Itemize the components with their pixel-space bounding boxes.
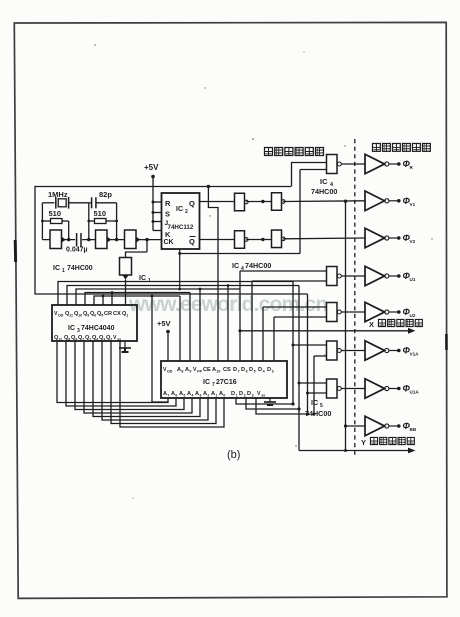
svg-text:V1A: V1A (410, 352, 420, 357)
svg-text:1: 1 (215, 394, 217, 398)
svg-text:7: 7 (238, 370, 240, 374)
wire riser jog to A10 (208, 187, 218, 362)
label IC4 (320, 177, 334, 188)
wire riser D5 (262, 307, 264, 361)
label 510 right (94, 209, 107, 218)
nand gate IC4b (272, 193, 286, 211)
label IC1 74HC00 (53, 265, 93, 274)
wire riser gate6 in2 (313, 356, 316, 416)
wire gate7 in2 (306, 392, 327, 395)
svg-text:6: 6 (94, 314, 96, 318)
wire - node C riser (115, 203, 118, 242)
wire D1 route (236, 398, 295, 406)
wire gate B to buffer T2 (283, 200, 365, 203)
svg-text:D: D (247, 391, 251, 397)
svg-text:4: 4 (96, 338, 98, 342)
svg-text:11: 11 (69, 314, 73, 318)
svg-text:3: 3 (77, 328, 80, 334)
label 74HC00 top (311, 187, 337, 196)
svg-text:10: 10 (78, 314, 82, 318)
nand gate IC5a (293, 267, 365, 286)
nand gate IC5c (327, 341, 366, 360)
wire - osc crystal row riser left (41, 203, 43, 240)
svg-text:12: 12 (58, 338, 62, 342)
wire top corner riser (292, 163, 328, 187)
wire bus A5 (75, 341, 184, 410)
inverter gate IC1a (50, 230, 66, 249)
wire gate4 in2 (252, 280, 327, 282)
wire - left block outline (35, 187, 308, 295)
svg-text:U2: U2 (410, 313, 416, 318)
buffer amp B1 (365, 154, 401, 174)
node on top wire (207, 185, 210, 188)
eprom U7 27C16 (161, 361, 287, 398)
wire - osc main row (42, 239, 161, 241)
svg-text:6: 6 (246, 370, 248, 374)
svg-text:Q: Q (189, 237, 195, 246)
label phi V2 (403, 233, 416, 244)
ground (27C16 Vss) (264, 398, 276, 405)
wire Qbar to gate C (200, 239, 235, 241)
svg-text:CK: CK (164, 239, 174, 246)
svg-text:S: S (165, 210, 170, 219)
wire pin106 riser (102, 295, 105, 305)
nand gate IC4d (272, 230, 286, 248)
power +5V (IC2) (144, 163, 159, 231)
buffer amp B2 (365, 191, 401, 211)
svg-text:IC: IC (232, 261, 239, 270)
svg-text:IC: IC (320, 177, 328, 186)
dashed separator line (354, 139, 356, 456)
svg-text:3: 3 (272, 370, 274, 374)
wire gate6 in2 stub (314, 355, 327, 357)
nand gate IC4e (327, 155, 366, 174)
wire riser to top gate in2 (299, 170, 301, 254)
label timing logic block (265, 148, 324, 156)
nand gate IC4a (235, 193, 249, 211)
nand gate IC5b (327, 303, 366, 322)
svg-text:1: 1 (62, 268, 65, 274)
wire bus A4 (84, 341, 192, 413)
label 1MHz (48, 190, 68, 199)
wire vertical bus (345, 201, 347, 450)
capacitor 0.047u (75, 233, 82, 247)
svg-text:2: 2 (244, 394, 246, 398)
svg-text:3: 3 (199, 394, 201, 398)
wire riser CS (227, 284, 230, 361)
wire in2 stub (300, 169, 327, 171)
counter U3 74HC4040 (52, 305, 137, 342)
wire bus A2 (102, 341, 208, 420)
label IC5 (311, 398, 323, 409)
label phi U1A (403, 384, 420, 395)
wire gate4 in1 (238, 271, 327, 332)
svg-text:9: 9 (189, 370, 191, 374)
label X scan pulse (369, 319, 422, 329)
svg-text:D: D (258, 367, 262, 373)
wire D2 route (246, 398, 301, 411)
wire X scan (240, 328, 416, 334)
ignore (94, 44, 433, 498)
svg-text:D: D (241, 367, 245, 373)
wire T8 input (344, 424, 365, 427)
label 82p (99, 190, 112, 199)
wire gate7 in1 (298, 382, 328, 385)
power +5V (EPROM) (157, 319, 171, 361)
svg-text:7: 7 (82, 338, 84, 342)
wire riser D6 (251, 281, 253, 361)
wire long riser right3 (307, 294, 309, 414)
wire bus A6 (66, 341, 176, 406)
wire gate A to B (246, 200, 272, 203)
wire clock riser to A7 (151, 295, 168, 402)
svg-text:74HC00: 74HC00 (245, 261, 271, 270)
svg-text:4: 4 (263, 370, 265, 374)
svg-text:0: 0 (223, 394, 225, 398)
wire feedback row (178, 249, 300, 289)
label level-shift block (372, 143, 430, 151)
label 510 left (49, 209, 62, 218)
svg-text:R: R (410, 165, 414, 170)
svg-text:Y: Y (361, 438, 366, 447)
buffer amp B6 (365, 341, 401, 361)
svg-text:74HC00: 74HC00 (305, 409, 331, 418)
svg-text:D: D (231, 391, 235, 397)
svg-text:D: D (249, 367, 253, 373)
buffer amp B8 (365, 416, 401, 436)
node CK junction (145, 238, 148, 241)
svg-text:X: X (369, 320, 374, 329)
label 74HC00 bottom (305, 409, 331, 418)
wire riser A9 (189, 293, 191, 362)
crystal X1 1MHz (42, 197, 88, 209)
wire bus A1 (111, 341, 216, 424)
wire bus A0 (120, 341, 224, 427)
wire S pull-up (152, 211, 162, 214)
label phi V1 (403, 196, 416, 207)
svg-text:U1A: U1A (410, 390, 420, 395)
wire long riser right2 (298, 286, 300, 451)
ground (4040 Vss) (119, 341, 131, 352)
wire Y scan (299, 448, 416, 454)
svg-text:BB: BB (410, 427, 417, 432)
svg-text:7: 7 (167, 394, 169, 398)
svg-text:10: 10 (216, 370, 220, 374)
wire bus A3 (93, 341, 200, 417)
svg-text:DD: DD (167, 370, 173, 374)
label phi V1A (403, 346, 420, 357)
wire gate6 in1 (292, 344, 328, 347)
svg-text:Q: Q (189, 199, 195, 208)
svg-text:74HC00: 74HC00 (67, 265, 93, 272)
svg-text:PP: PP (197, 370, 202, 374)
svg-text:8: 8 (181, 370, 183, 374)
wire bus L1 (58, 282, 293, 306)
wire Q to gate A (200, 201, 235, 203)
wire - node B riser (87, 203, 90, 242)
wire bus L5 (94, 296, 180, 305)
svg-text:5: 5 (254, 370, 256, 374)
svg-text:74HC112: 74HC112 (168, 224, 194, 231)
wire pin112 riser (111, 291, 114, 305)
wire bus L4 (85, 293, 190, 306)
svg-text:5: 5 (183, 394, 185, 398)
svg-text:510: 510 (49, 209, 62, 218)
wire bus L3 (76, 289, 240, 305)
buffer amp B7 (365, 379, 401, 399)
label phi R (403, 159, 414, 170)
label IC4 74HC00 mid (232, 261, 271, 272)
resistor R1 510 (41, 219, 70, 242)
svg-text:1: 1 (89, 338, 91, 342)
buffer amp B5 (365, 302, 401, 322)
flip-flop U2 74HC112 (162, 193, 200, 249)
svg-text:74HC4040: 74HC4040 (81, 325, 115, 332)
svg-text:3: 3 (103, 338, 105, 342)
svg-text:D: D (267, 367, 271, 373)
svg-text:3: 3 (252, 394, 254, 398)
nand gate IC5d (327, 379, 366, 398)
svg-text:IC: IC (53, 265, 60, 272)
capacitor 82p (89, 197, 117, 208)
svg-text:+5V: +5V (144, 163, 159, 172)
wire riser D7 (239, 271, 241, 361)
wire K pull-up (153, 230, 162, 232)
svg-text:ss: ss (261, 394, 265, 398)
label phi U2 (403, 307, 416, 318)
wire D3 route (256, 398, 309, 416)
resistor R2 510 (89, 219, 117, 224)
svg-text:5: 5 (101, 314, 103, 318)
wire gate5 in2 (274, 316, 327, 318)
wire gate D to buffer T3 (283, 237, 365, 240)
svg-text:IC: IC (68, 325, 75, 332)
svg-text:1: 1 (126, 314, 128, 318)
svg-text:+5V: +5V (157, 319, 171, 328)
inverter gate IC1c (125, 230, 141, 249)
svg-text:IC: IC (176, 206, 183, 213)
wire J pull-up (152, 220, 162, 223)
svg-text:0.047µ: 0.047µ (66, 247, 88, 254)
buffer amp B3 (365, 228, 401, 248)
wire gate5 in1 (263, 306, 327, 308)
svg-text:4: 4 (191, 394, 193, 398)
nand gate IC4c (235, 231, 249, 249)
svg-text:D: D (233, 367, 237, 373)
wire riser D4 (273, 317, 275, 361)
label IC1d (139, 275, 151, 284)
svg-text:82p: 82p (99, 190, 112, 199)
svg-text:510: 510 (94, 209, 107, 218)
wire bus L2 (67, 286, 299, 306)
svg-text:CS: CS (223, 367, 231, 373)
svg-text:7: 7 (212, 382, 215, 388)
svg-text:V1: V1 (410, 202, 416, 207)
wire long riser right1 (292, 282, 294, 405)
svg-text:74HC00: 74HC00 (311, 187, 337, 196)
watermark eeworld (128, 293, 327, 316)
svg-text:IC: IC (311, 398, 318, 407)
svg-text:2: 2 (185, 209, 188, 215)
svg-text:9: 9 (87, 314, 89, 318)
svg-text:CX: CX (113, 311, 121, 317)
svg-text:CE: CE (203, 367, 211, 373)
svg-text:V2: V2 (410, 239, 416, 244)
svg-text:2: 2 (110, 338, 112, 342)
svg-text:9: 9 (75, 338, 77, 342)
svg-text:6: 6 (175, 394, 177, 398)
svg-text:(b): (b) (227, 449, 240, 461)
svg-text:CR: CR (104, 311, 112, 317)
label phi U1 (403, 271, 416, 282)
svg-text:IC: IC (203, 379, 210, 386)
wire bus A7 (57, 341, 168, 403)
svg-text:1: 1 (236, 394, 238, 398)
svg-text:U1: U1 (410, 277, 416, 282)
svg-text:D: D (239, 391, 243, 397)
label phi BB (403, 421, 417, 432)
svg-text:ss: ss (117, 338, 121, 342)
wire riser A8 (179, 296, 181, 361)
inverter gate IC1b (96, 230, 112, 249)
label Y scan pulse (361, 437, 414, 447)
node L3 tee (178, 288, 181, 291)
wire riser Vpp (199, 288, 202, 361)
wire R pull-up (152, 201, 162, 204)
svg-text:DD: DD (58, 314, 64, 318)
svg-text:27C16: 27C16 (216, 379, 237, 386)
caption (b) (227, 449, 240, 461)
buffer amp B4 (365, 266, 401, 286)
svg-text:2: 2 (207, 394, 209, 398)
wire gate C to D (246, 238, 272, 241)
inverter gate IC1d vertical (120, 240, 148, 305)
label 0.047u (66, 247, 88, 254)
svg-text:R: R (165, 199, 171, 208)
svg-text:1MHz: 1MHz (48, 190, 68, 199)
svg-text:K: K (165, 230, 171, 239)
svg-text:8: 8 (68, 338, 70, 342)
